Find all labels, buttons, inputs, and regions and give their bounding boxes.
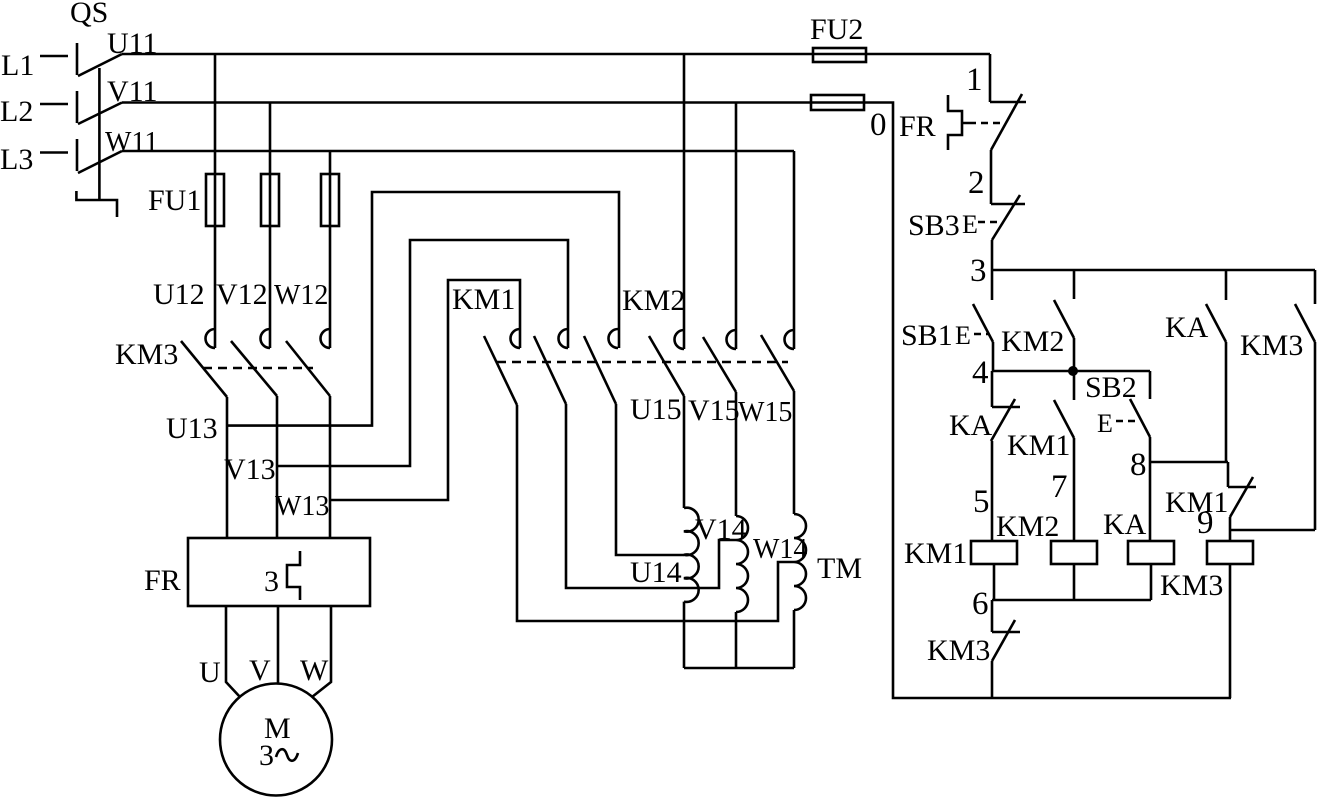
wire U14 tap from KM1 pole3 to TM coil1 xyxy=(616,404,684,555)
fuse FU2 upper element xyxy=(813,48,866,62)
wire W11 rail xyxy=(122,150,794,153)
svg-text:KM3: KM3 xyxy=(1160,569,1223,602)
svg-text:U15: U15 xyxy=(630,393,682,426)
wire V11 rail xyxy=(122,101,864,104)
wire V13 to KM1 pole2 xyxy=(277,240,568,466)
contact KM3 aux NO blade xyxy=(1295,304,1315,342)
wire node 7 to coil KM2 xyxy=(1073,438,1076,541)
svg-text:KM2: KM2 xyxy=(622,284,685,317)
wire coil KM2 to node 6 xyxy=(1073,564,1076,600)
wire TM coil3 bottom lead xyxy=(793,610,796,668)
contactor KM1 KM2 linkage dashed xyxy=(497,361,788,364)
wire SB1 to node 4 xyxy=(992,342,995,371)
svg-text:U11: U11 xyxy=(107,27,158,60)
coil KA xyxy=(1128,541,1174,564)
wire KM3 pole1 to FR box xyxy=(226,397,229,538)
coil KM3 xyxy=(1207,541,1253,564)
switch QS pole L1 lead wire xyxy=(40,55,68,58)
switch QS pole L2 fixed contact bar xyxy=(76,91,79,123)
svg-text:SB3: SB3 xyxy=(908,209,960,242)
svg-text:W12: W12 xyxy=(274,280,328,311)
contact KM1 aux NO upper wire xyxy=(1073,371,1076,400)
contactor KM3 pole3 fixed contact arc xyxy=(321,329,331,348)
fuse FU1 element 1 xyxy=(206,174,224,226)
coil KM2 xyxy=(1051,541,1097,564)
wire KM2 aux to node 4 xyxy=(1073,338,1076,371)
svg-text:3: 3 xyxy=(259,739,274,772)
motor M circle xyxy=(220,684,332,796)
contactor KM2 pole2 fixed contact arc xyxy=(727,330,737,349)
wire KM3 pole2 to FR box xyxy=(276,396,279,538)
contact KM3 NC blade xyxy=(992,620,1015,661)
svg-text:U13: U13 xyxy=(166,412,218,445)
wire node 8 rail xyxy=(1150,461,1228,464)
wire FR to motor W xyxy=(312,606,331,697)
wire node 6 rail xyxy=(992,599,1151,602)
contact KM1 NC blade xyxy=(1230,477,1253,517)
svg-text:8: 8 xyxy=(1130,447,1147,483)
wire node 9 rail xyxy=(1230,529,1315,532)
wire node 3 drop xyxy=(991,240,994,270)
contactor KM2 pole2 blade xyxy=(703,337,736,392)
contact KA NC seat xyxy=(992,406,1020,409)
contactor KM2 pole3 fixed contact arc xyxy=(785,330,795,349)
contactor KM1 pole3 blade xyxy=(584,336,616,404)
pushbutton SB3 NC blade xyxy=(992,195,1020,240)
fuse FU1 element 2 xyxy=(261,174,279,226)
contactor KM2 pole1 fixed contact arc xyxy=(675,330,685,349)
svg-text:L3: L3 xyxy=(0,143,33,176)
pushbutton SB3 actuator dashed link xyxy=(978,221,1002,224)
svg-text:W15: W15 xyxy=(738,397,792,428)
svg-text:W: W xyxy=(300,654,329,687)
svg-text:FR: FR xyxy=(899,110,936,143)
switch QS pole L2 lead wire xyxy=(40,103,68,106)
svg-text:U14: U14 xyxy=(630,556,682,589)
switch QS pole L3 fixed contact bar xyxy=(76,139,79,171)
pushbutton SB1 upper wire xyxy=(991,270,994,300)
svg-text:1: 1 xyxy=(966,62,983,98)
switch QS pole L3 lead wire xyxy=(40,151,68,154)
wire node 5 to coil KM1 xyxy=(991,441,994,541)
thermal relay FR heater box xyxy=(188,538,370,606)
svg-text:TM: TM xyxy=(817,552,862,585)
wire node 4 rail xyxy=(992,370,1150,373)
svg-text:V13: V13 xyxy=(224,453,276,486)
wire SB2 through node 8 to coil KA xyxy=(1149,437,1152,541)
wire node 3 rail xyxy=(991,269,1315,272)
svg-text:KM1: KM1 xyxy=(1007,429,1070,462)
svg-text:KM1: KM1 xyxy=(452,283,515,316)
contactor KM2 pole3 blade xyxy=(761,335,794,391)
svg-text:FU2: FU2 xyxy=(810,13,863,46)
svg-text:V14: V14 xyxy=(695,513,747,546)
fuse FU2 lower element xyxy=(811,95,864,110)
svg-text:W13: W13 xyxy=(275,491,329,522)
wire node 2 xyxy=(990,150,993,204)
wire KM3 aux drop xyxy=(1314,342,1317,530)
thermal relay FR actuator symbol xyxy=(948,95,969,150)
contact KM1 aux NO blade xyxy=(1054,400,1074,438)
switch QS pole L2 blade xyxy=(78,103,122,125)
svg-text:KM1: KM1 xyxy=(904,537,967,570)
wire U11 rail xyxy=(122,53,990,56)
svg-text:W11: W11 xyxy=(105,127,158,158)
svg-text:3: 3 xyxy=(264,565,279,598)
switch QS handle xyxy=(76,191,117,217)
contact KM1 NC upper wire xyxy=(1227,462,1230,487)
wire FR to motor U xyxy=(226,606,240,697)
switch QS pole L1 blade xyxy=(78,54,122,76)
wire W14 tap from KM1 pole1 to TM coil3 xyxy=(517,405,794,621)
pushbutton SB2 NO blade xyxy=(1130,399,1150,437)
junction node 4 dot xyxy=(1068,366,1078,376)
contactor KM1 pole3 fixed contact arc xyxy=(609,329,618,348)
wire U15 KM2 pole1 to TM coil1 top xyxy=(683,396,686,508)
contactor KM2 pole1 blade xyxy=(649,336,684,396)
contactor KM3 pole3 blade xyxy=(286,341,330,396)
svg-text:E: E xyxy=(1097,409,1113,438)
contactor KM3 pole1 blade xyxy=(181,341,227,397)
thermal relay FR NC contact blade xyxy=(991,94,1022,150)
svg-text:V: V xyxy=(249,654,271,687)
wire U12 drop from U11 to FU1 xyxy=(214,54,217,348)
svg-text:V11: V11 xyxy=(107,75,158,108)
wire V15 KM2 pole2 to TM coil2 top xyxy=(735,392,738,516)
contactor KM3 pole2 blade xyxy=(231,341,277,396)
wire TM coil1 bottom lead xyxy=(683,602,686,668)
pushbutton SB2 actuator dashed link xyxy=(1116,420,1138,423)
svg-text:KA: KA xyxy=(1165,311,1209,344)
svg-text:6: 6 xyxy=(972,586,989,622)
contactor KM3 pole1 fixed contact arc xyxy=(206,329,216,348)
pushbutton SB2 upper wire xyxy=(1149,371,1152,399)
svg-text:7: 7 xyxy=(1051,469,1068,505)
transformer TM coil V14 winding xyxy=(736,516,748,612)
wire KM2 pole1 feed from U11 xyxy=(683,54,686,349)
svg-text:E: E xyxy=(955,321,971,350)
svg-text:U12: U12 xyxy=(153,278,205,311)
contactor KM1 pole2 fixed contact arc xyxy=(559,329,569,348)
wire KM3 pole3 to FR box xyxy=(329,396,332,538)
wire V14 tap from KM1 pole2 to TM coil2 xyxy=(566,404,736,588)
wire TM star point xyxy=(684,667,794,670)
wire U13 to KM1 pole3 xyxy=(227,192,619,426)
contact KA NC upper wire xyxy=(991,371,994,407)
wire V12 drop from V11 to FU1 xyxy=(269,103,272,349)
svg-text:SB1: SB1 xyxy=(901,319,953,352)
contact KA aux NO blade xyxy=(1206,304,1226,342)
svg-text:KA: KA xyxy=(949,409,993,442)
switch QS pole L1 fixed contact bar xyxy=(76,43,79,75)
contact KA NC blade xyxy=(991,399,1015,441)
svg-text:V12: V12 xyxy=(216,278,268,311)
pushbutton SB1 NO blade xyxy=(973,304,993,342)
fuse FU1 element 3 xyxy=(321,174,339,226)
wire KM2 pole2 feed from V11 xyxy=(735,103,738,350)
svg-text:4: 4 xyxy=(972,355,989,391)
thermal relay FR heater element symbol xyxy=(287,551,300,600)
thermal relay FR NC contact seat xyxy=(990,101,1026,104)
svg-text:W14: W14 xyxy=(753,534,807,565)
svg-text:0: 0 xyxy=(870,107,887,143)
contact KA aux NO upper wire xyxy=(1225,270,1228,300)
wire KM2 pole3 feed from W11 xyxy=(793,151,796,349)
wire W13 to KM1 pole1 xyxy=(330,280,520,500)
svg-text:9: 9 xyxy=(1197,505,1214,541)
pushbutton SB1 actuator dashed link xyxy=(974,333,988,336)
wire TM coil2 bottom lead xyxy=(735,612,738,668)
contactor KM3 linkage dashed xyxy=(203,367,313,370)
svg-text:KM2: KM2 xyxy=(1001,325,1064,358)
svg-text:5: 5 xyxy=(973,484,990,520)
svg-text:KM2: KM2 xyxy=(996,510,1059,543)
svg-text:E: E xyxy=(962,210,978,239)
contactor KM3 pole2 fixed contact arc xyxy=(261,329,271,348)
contact KM3 NC seat xyxy=(992,631,1020,634)
wire KM3 NC to bottom rail xyxy=(991,661,994,698)
svg-text:V15: V15 xyxy=(688,394,740,427)
svg-text:KM3: KM3 xyxy=(115,338,178,371)
wire W12 drop from W11 to FU1 xyxy=(329,151,332,348)
svg-text:L1: L1 xyxy=(1,49,34,82)
thermal relay FR actuator dashed link xyxy=(969,122,1004,125)
svg-text:KM3: KM3 xyxy=(927,634,990,667)
wire 0 rail from FU2 xyxy=(864,103,1231,699)
contactor KM1 pole1 blade xyxy=(484,336,517,405)
wire W15 KM2 pole3 to TM coil3 top xyxy=(793,391,796,514)
contactor KM1 pole2 blade xyxy=(534,336,566,404)
switch QS pole L3 blade xyxy=(78,151,122,173)
svg-text:U: U xyxy=(199,656,221,689)
svg-text:FR: FR xyxy=(144,564,181,597)
svg-text:L2: L2 xyxy=(0,95,33,128)
wire KA aux to node 8 xyxy=(1225,342,1228,462)
svg-text:2: 2 xyxy=(968,165,985,201)
wire node 1 from U11 xyxy=(989,54,992,102)
wire coil KA to node 6 xyxy=(1150,564,1153,600)
wire FR to motor V xyxy=(277,606,280,684)
transformer TM coil W14 winding xyxy=(794,514,806,610)
contactor KM1 pole1 fixed contact arc xyxy=(511,329,521,348)
transformer TM coil U14 winding xyxy=(684,508,699,602)
wire node 9 to coil KM3 xyxy=(1229,517,1232,541)
contact KM3 aux NO upper wire xyxy=(1314,270,1317,304)
svg-text:KA: KA xyxy=(1103,508,1147,541)
contact KM2 aux NO blade xyxy=(1054,300,1074,338)
switch QS mechanical link bar xyxy=(98,68,101,200)
pushbutton SB3 NC seat xyxy=(991,203,1025,206)
svg-text:QS: QS xyxy=(70,0,108,29)
wire coil KM3 to bottom rail xyxy=(1229,564,1232,698)
svg-text:3: 3 xyxy=(970,253,987,289)
wire coil KM1 to node 6 xyxy=(993,564,996,600)
svg-text:KM3: KM3 xyxy=(1240,329,1303,362)
contact KM1 NC seat xyxy=(1228,486,1256,489)
svg-text:SB2: SB2 xyxy=(1085,371,1137,404)
coil KM1 xyxy=(971,541,1017,564)
contact KM3 NC upper wire xyxy=(991,600,994,632)
contact KM2 aux NO upper wire xyxy=(1073,270,1076,299)
svg-text:FU1: FU1 xyxy=(148,184,201,217)
